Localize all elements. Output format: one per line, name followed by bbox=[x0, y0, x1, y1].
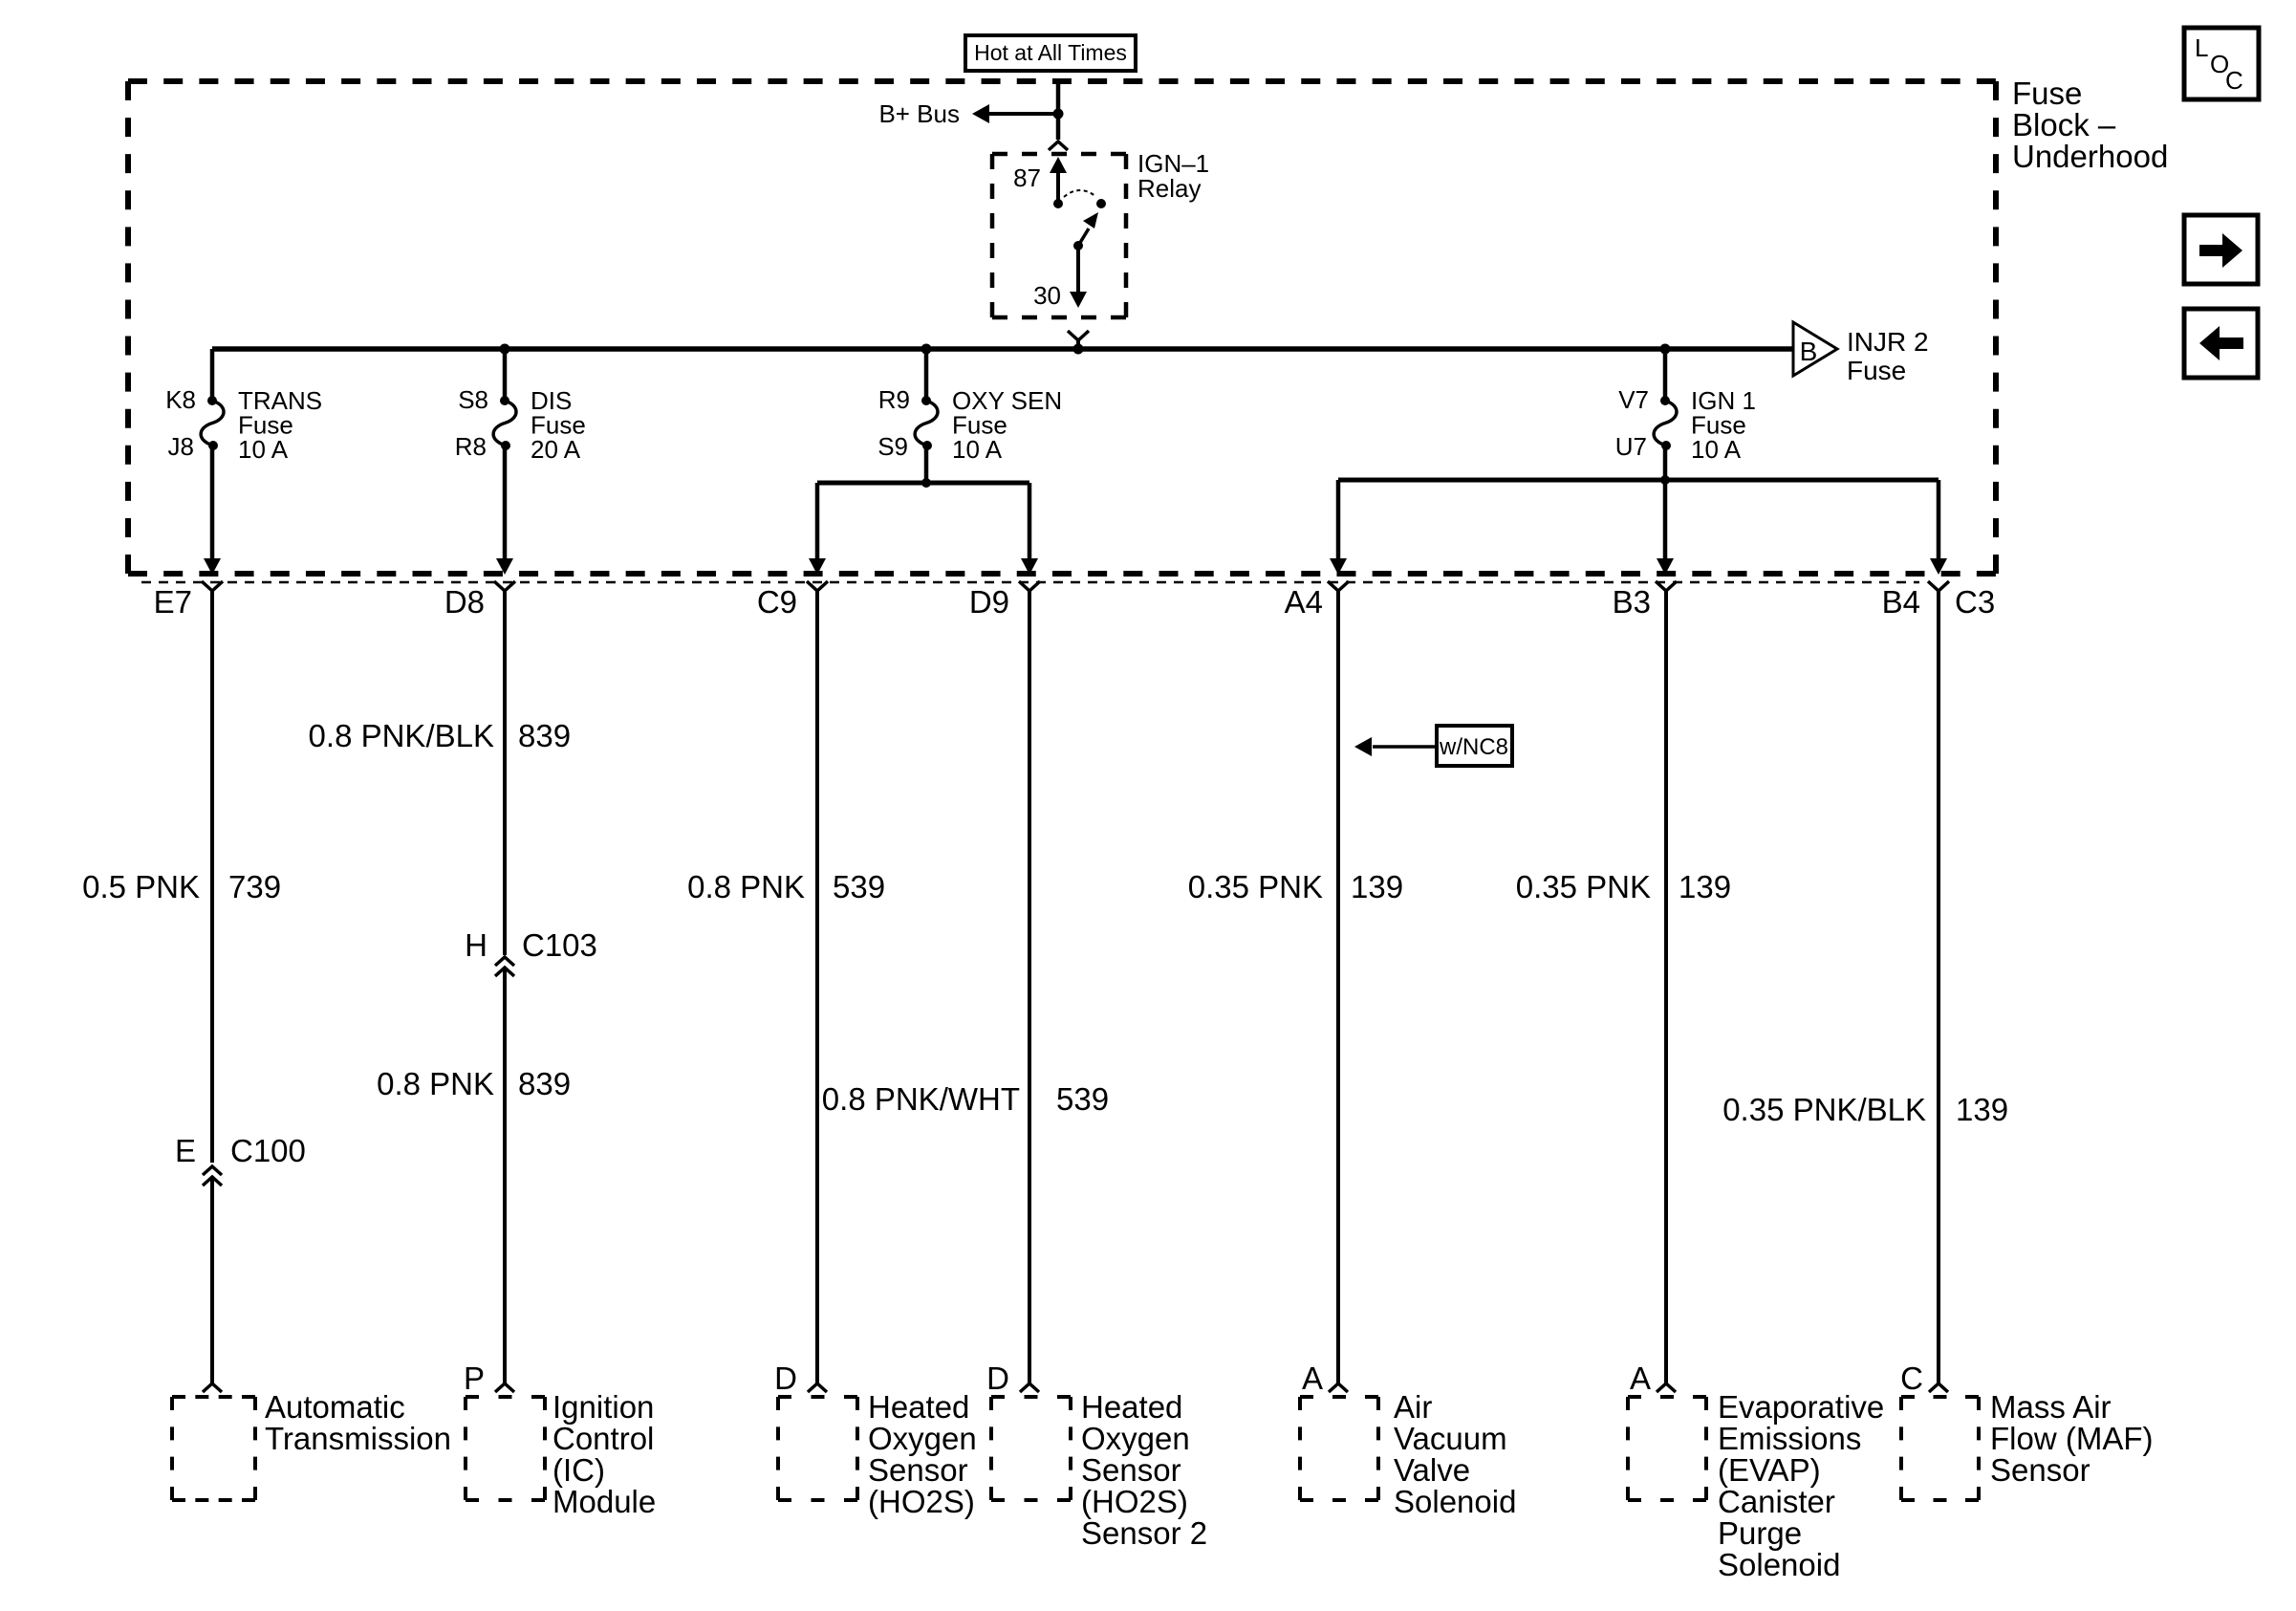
svg-text:K8: K8 bbox=[165, 385, 196, 414]
connector terminal E7 (female Y) bbox=[202, 581, 223, 591]
fuse block - underhood boundary (dashed box) bbox=[128, 78, 1996, 84]
connector terminal D8 (female Y) bbox=[494, 581, 515, 591]
svg-text:Solenoid: Solenoid bbox=[1718, 1547, 1840, 1582]
right-arrow legend box bbox=[2184, 215, 2258, 284]
svg-text:30: 30 bbox=[1033, 281, 1061, 310]
relay common node bbox=[1073, 241, 1083, 250]
fuse IGN 1 10A bbox=[1663, 349, 1668, 401]
svg-text:Relay: Relay bbox=[1137, 174, 1201, 203]
wire: OXY SEN fuse output bbox=[924, 447, 929, 483]
arrow: w/NC8 applies to A4 wire bbox=[1373, 745, 1437, 749]
svg-text:739: 739 bbox=[228, 869, 281, 904]
connector terminal C9 (female Y) bbox=[807, 581, 828, 591]
svg-text:0.35 PNK: 0.35 PNK bbox=[1188, 869, 1323, 904]
connector chevron into component (x=855) bbox=[808, 1383, 827, 1392]
connector C100 pin E (inline) bbox=[203, 1166, 222, 1175]
connector C103 pin H (inline) bbox=[495, 957, 514, 966]
wire: TRANS fuse output to E7 bbox=[210, 446, 215, 559]
svg-text:10 A: 10 A bbox=[952, 435, 1003, 464]
svg-text:539: 539 bbox=[1056, 1081, 1109, 1117]
wire: branch to B3 bbox=[1663, 480, 1668, 559]
off-page connector B to INJR 2 Fuse bbox=[1793, 322, 1837, 376]
relay pin 30 (arrow down) bbox=[1076, 246, 1080, 294]
svg-text:Block –: Block – bbox=[2012, 107, 2116, 142]
relay actuation arc (dashed) bbox=[1064, 190, 1096, 197]
svg-text:Oxygen: Oxygen bbox=[1081, 1421, 1190, 1456]
svg-text:A: A bbox=[1302, 1361, 1323, 1396]
wire: D8 circuit 839 upper bbox=[503, 591, 507, 955]
svg-text:10 A: 10 A bbox=[238, 435, 289, 464]
svg-text:Heated: Heated bbox=[1081, 1389, 1182, 1425]
svg-text:Mass Air: Mass Air bbox=[1990, 1389, 2112, 1425]
label box: Hot at All Times bbox=[965, 35, 1136, 71]
svg-text:539: 539 bbox=[833, 869, 885, 904]
wire: branch to A4 bbox=[1336, 480, 1341, 559]
connector chevron into component (x=1743) bbox=[1657, 1383, 1676, 1392]
svg-text:Ignition: Ignition bbox=[552, 1389, 654, 1425]
svg-text:w/NC8: w/NC8 bbox=[1439, 734, 1508, 760]
svg-text:0.8 PNK/WHT: 0.8 PNK/WHT bbox=[822, 1081, 1020, 1117]
svg-text:C3: C3 bbox=[1955, 584, 1995, 620]
svg-text:Control: Control bbox=[552, 1421, 654, 1456]
svg-text:(IC): (IC) bbox=[552, 1452, 605, 1488]
svg-text:D: D bbox=[774, 1361, 797, 1396]
svg-text:L: L bbox=[2195, 33, 2208, 62]
svg-text:Heated: Heated bbox=[868, 1389, 969, 1425]
flag box: w/NC8 bbox=[1437, 726, 1512, 766]
connector chevron into component (x=1077) bbox=[1020, 1383, 1039, 1392]
svg-text:Fuse: Fuse bbox=[1847, 356, 1906, 385]
svg-text:C: C bbox=[2225, 66, 2243, 95]
relay IGN-1 (dashed box) bbox=[992, 152, 1126, 157]
svg-text:10 A: 10 A bbox=[1691, 435, 1742, 464]
component: Ignition Control (IC) Module (dashed box) bbox=[466, 1395, 545, 1399]
svg-text:B: B bbox=[1800, 337, 1818, 366]
svg-text:(HO2S): (HO2S) bbox=[1081, 1484, 1188, 1519]
svg-text:0.35 PNK: 0.35 PNK bbox=[1516, 869, 1651, 904]
fuse OXY SEN 10A bbox=[924, 349, 929, 401]
wire: IGN 1 fuse output bbox=[1663, 447, 1668, 480]
svg-text:D8: D8 bbox=[444, 584, 485, 620]
svg-text:0.5 PNK: 0.5 PNK bbox=[82, 869, 200, 904]
connector chevron below relay (female) bbox=[1068, 331, 1089, 340]
wire: A4 circuit 139 bbox=[1336, 591, 1340, 1383]
wire: IGN 1 split bar bbox=[1338, 478, 1939, 483]
svg-text:Sensor 2: Sensor 2 bbox=[1081, 1515, 1207, 1551]
node: IGN 1 split junction bbox=[1660, 475, 1670, 485]
svg-text:Module: Module bbox=[552, 1484, 656, 1519]
fuse TRANS 10A bbox=[210, 349, 215, 401]
wire: branch to B4 bbox=[1937, 480, 1941, 559]
svg-text:139: 139 bbox=[1956, 1092, 2008, 1127]
component: EVAP Canister Purge Solenoid (dashed box) bbox=[1628, 1395, 1706, 1399]
svg-text:P: P bbox=[464, 1361, 485, 1396]
wire: D8 circuit 839 lower bbox=[503, 968, 507, 1383]
svg-text:J8: J8 bbox=[168, 432, 194, 461]
svg-text:B+ Bus: B+ Bus bbox=[878, 99, 960, 128]
svg-text:Underhood: Underhood bbox=[2012, 139, 2168, 174]
svg-text:C100: C100 bbox=[230, 1133, 306, 1168]
svg-text:A4: A4 bbox=[1285, 584, 1323, 620]
svg-text:Emissions: Emissions bbox=[1718, 1421, 1861, 1456]
svg-text:C103: C103 bbox=[522, 927, 597, 963]
svg-text:Canister: Canister bbox=[1718, 1484, 1835, 1519]
connector terminal D9 (female Y) bbox=[1019, 581, 1040, 591]
connector chevron into component (x=222) bbox=[203, 1383, 222, 1392]
fuse DIS 20A bbox=[503, 349, 508, 401]
svg-text:Hot at All Times: Hot at All Times bbox=[974, 40, 1127, 65]
component: Mass Air Flow (MAF) Sensor (dashed box) bbox=[1901, 1395, 1979, 1399]
connector boundary line (thin dashed) bbox=[141, 581, 1919, 584]
wire: branch to D9 bbox=[1028, 483, 1032, 559]
component: Automatic Transmission (dashed box) bbox=[172, 1395, 255, 1399]
svg-text:139: 139 bbox=[1679, 869, 1731, 904]
svg-text:0.8 PNK: 0.8 PNK bbox=[377, 1066, 494, 1101]
svg-text:Sensor: Sensor bbox=[1081, 1452, 1181, 1488]
svg-text:0.8 PNK/BLK: 0.8 PNK/BLK bbox=[309, 718, 494, 753]
component: Heated Oxygen Sensor (HO2S) (dashed box) bbox=[778, 1395, 857, 1399]
svg-text:Solenoid: Solenoid bbox=[1394, 1484, 1516, 1519]
wire: OXY SEN split bar bbox=[817, 481, 1029, 486]
svg-text:Evaporative: Evaporative bbox=[1718, 1389, 1884, 1425]
relay contact (node right) bbox=[1096, 199, 1106, 208]
bus junction node at DIS bbox=[500, 344, 510, 355]
connector terminal A4 (female Y) bbox=[1328, 581, 1349, 591]
wire: B+ Bus takeoff bbox=[989, 112, 1058, 116]
svg-text:Fuse: Fuse bbox=[2012, 76, 2082, 111]
wire: battery feed from Hot at All Times bbox=[1056, 81, 1061, 140]
svg-text:B3: B3 bbox=[1613, 584, 1651, 620]
svg-text:Sensor: Sensor bbox=[1990, 1452, 2090, 1488]
wire: DIS fuse output to D8 bbox=[503, 446, 508, 559]
component: Air Vacuum Valve Solenoid (dashed box) bbox=[1300, 1395, 1378, 1399]
svg-text:C9: C9 bbox=[757, 584, 797, 620]
svg-text:(HO2S): (HO2S) bbox=[868, 1484, 975, 1519]
svg-text:Vacuum: Vacuum bbox=[1394, 1421, 1507, 1456]
wire: C9 circuit 539 bbox=[815, 591, 819, 1383]
wire: E7 circuit 739 lower bbox=[210, 1177, 214, 1383]
connector chevron above IGN-1 relay bbox=[1049, 142, 1068, 150]
svg-text:Automatic: Automatic bbox=[265, 1389, 405, 1425]
connector chevron into component (x=1400) bbox=[1329, 1383, 1348, 1392]
wire: relay pin30 to bus bbox=[1076, 340, 1080, 352]
svg-text:Purge: Purge bbox=[1718, 1515, 1802, 1551]
connector chevron into component (x=2028) bbox=[1929, 1383, 1948, 1392]
svg-text:E7: E7 bbox=[154, 584, 192, 620]
wire: B4 circuit 139 bbox=[1937, 591, 1940, 1383]
svg-text:Valve: Valve bbox=[1394, 1452, 1470, 1488]
wire: B3 circuit 139 bbox=[1664, 591, 1668, 1383]
svg-text:839: 839 bbox=[518, 1066, 571, 1101]
svg-text:D: D bbox=[986, 1361, 1009, 1396]
bus junction node at IGN 1 bbox=[1660, 344, 1671, 355]
svg-text:Transmission: Transmission bbox=[265, 1421, 451, 1456]
svg-text:S9: S9 bbox=[877, 432, 908, 461]
svg-text:D9: D9 bbox=[969, 584, 1009, 620]
wire: branch to C9 bbox=[815, 483, 820, 559]
svg-text:INJR 2: INJR 2 bbox=[1847, 327, 1929, 357]
svg-text:87: 87 bbox=[1013, 163, 1041, 192]
svg-text:0.8 PNK: 0.8 PNK bbox=[687, 869, 805, 904]
LOC legend box bbox=[2184, 28, 2259, 99]
svg-text:139: 139 bbox=[1351, 869, 1403, 904]
svg-text:(EVAP): (EVAP) bbox=[1718, 1452, 1821, 1488]
svg-text:0.35 PNK/BLK: 0.35 PNK/BLK bbox=[1722, 1092, 1926, 1127]
bus junction node at OXY SEN bbox=[921, 344, 932, 355]
node: OXY SEN split junction bbox=[921, 478, 931, 488]
svg-text:S8: S8 bbox=[458, 385, 488, 414]
svg-text:H: H bbox=[465, 927, 487, 963]
arrow to B+ Bus bbox=[972, 104, 989, 123]
connector chevron into component (x=528) bbox=[495, 1383, 514, 1392]
relay switch arm with arrowhead bbox=[1078, 229, 1089, 246]
connector terminal B4 (female Y) bbox=[1928, 581, 1949, 591]
wire: E7 circuit 739 upper bbox=[210, 591, 214, 1163]
svg-text:B4: B4 bbox=[1882, 584, 1920, 620]
bus junction node at relay bbox=[1073, 344, 1084, 355]
svg-text:E: E bbox=[175, 1133, 196, 1168]
svg-text:V7: V7 bbox=[1618, 385, 1649, 414]
wire: D9 circuit 539 bbox=[1028, 591, 1031, 1383]
svg-text:Sensor: Sensor bbox=[868, 1452, 968, 1488]
svg-text:Oxygen: Oxygen bbox=[868, 1421, 977, 1456]
wire: main fused-supply bus bbox=[212, 346, 1793, 352]
svg-text:839: 839 bbox=[518, 718, 571, 753]
connector terminal B3 (female Y) bbox=[1656, 581, 1677, 591]
relay pin 87 (arrow up) bbox=[1050, 157, 1067, 173]
svg-text:Flow (MAF): Flow (MAF) bbox=[1990, 1421, 2153, 1456]
svg-text:R8: R8 bbox=[455, 432, 487, 461]
left-arrow legend box bbox=[2184, 309, 2258, 378]
node: B+ Bus junction bbox=[1053, 109, 1064, 120]
svg-text:U7: U7 bbox=[1615, 432, 1647, 461]
svg-text:R9: R9 bbox=[878, 385, 910, 414]
svg-text:C: C bbox=[1900, 1361, 1923, 1396]
component: Heated Oxygen Sensor (HO2S) Sensor 2 (dashed box) bbox=[991, 1395, 1071, 1399]
svg-text:A: A bbox=[1630, 1361, 1651, 1396]
svg-text:20 A: 20 A bbox=[531, 435, 581, 464]
relay contact 87 (node) bbox=[1053, 199, 1063, 208]
svg-text:Air: Air bbox=[1394, 1389, 1432, 1425]
